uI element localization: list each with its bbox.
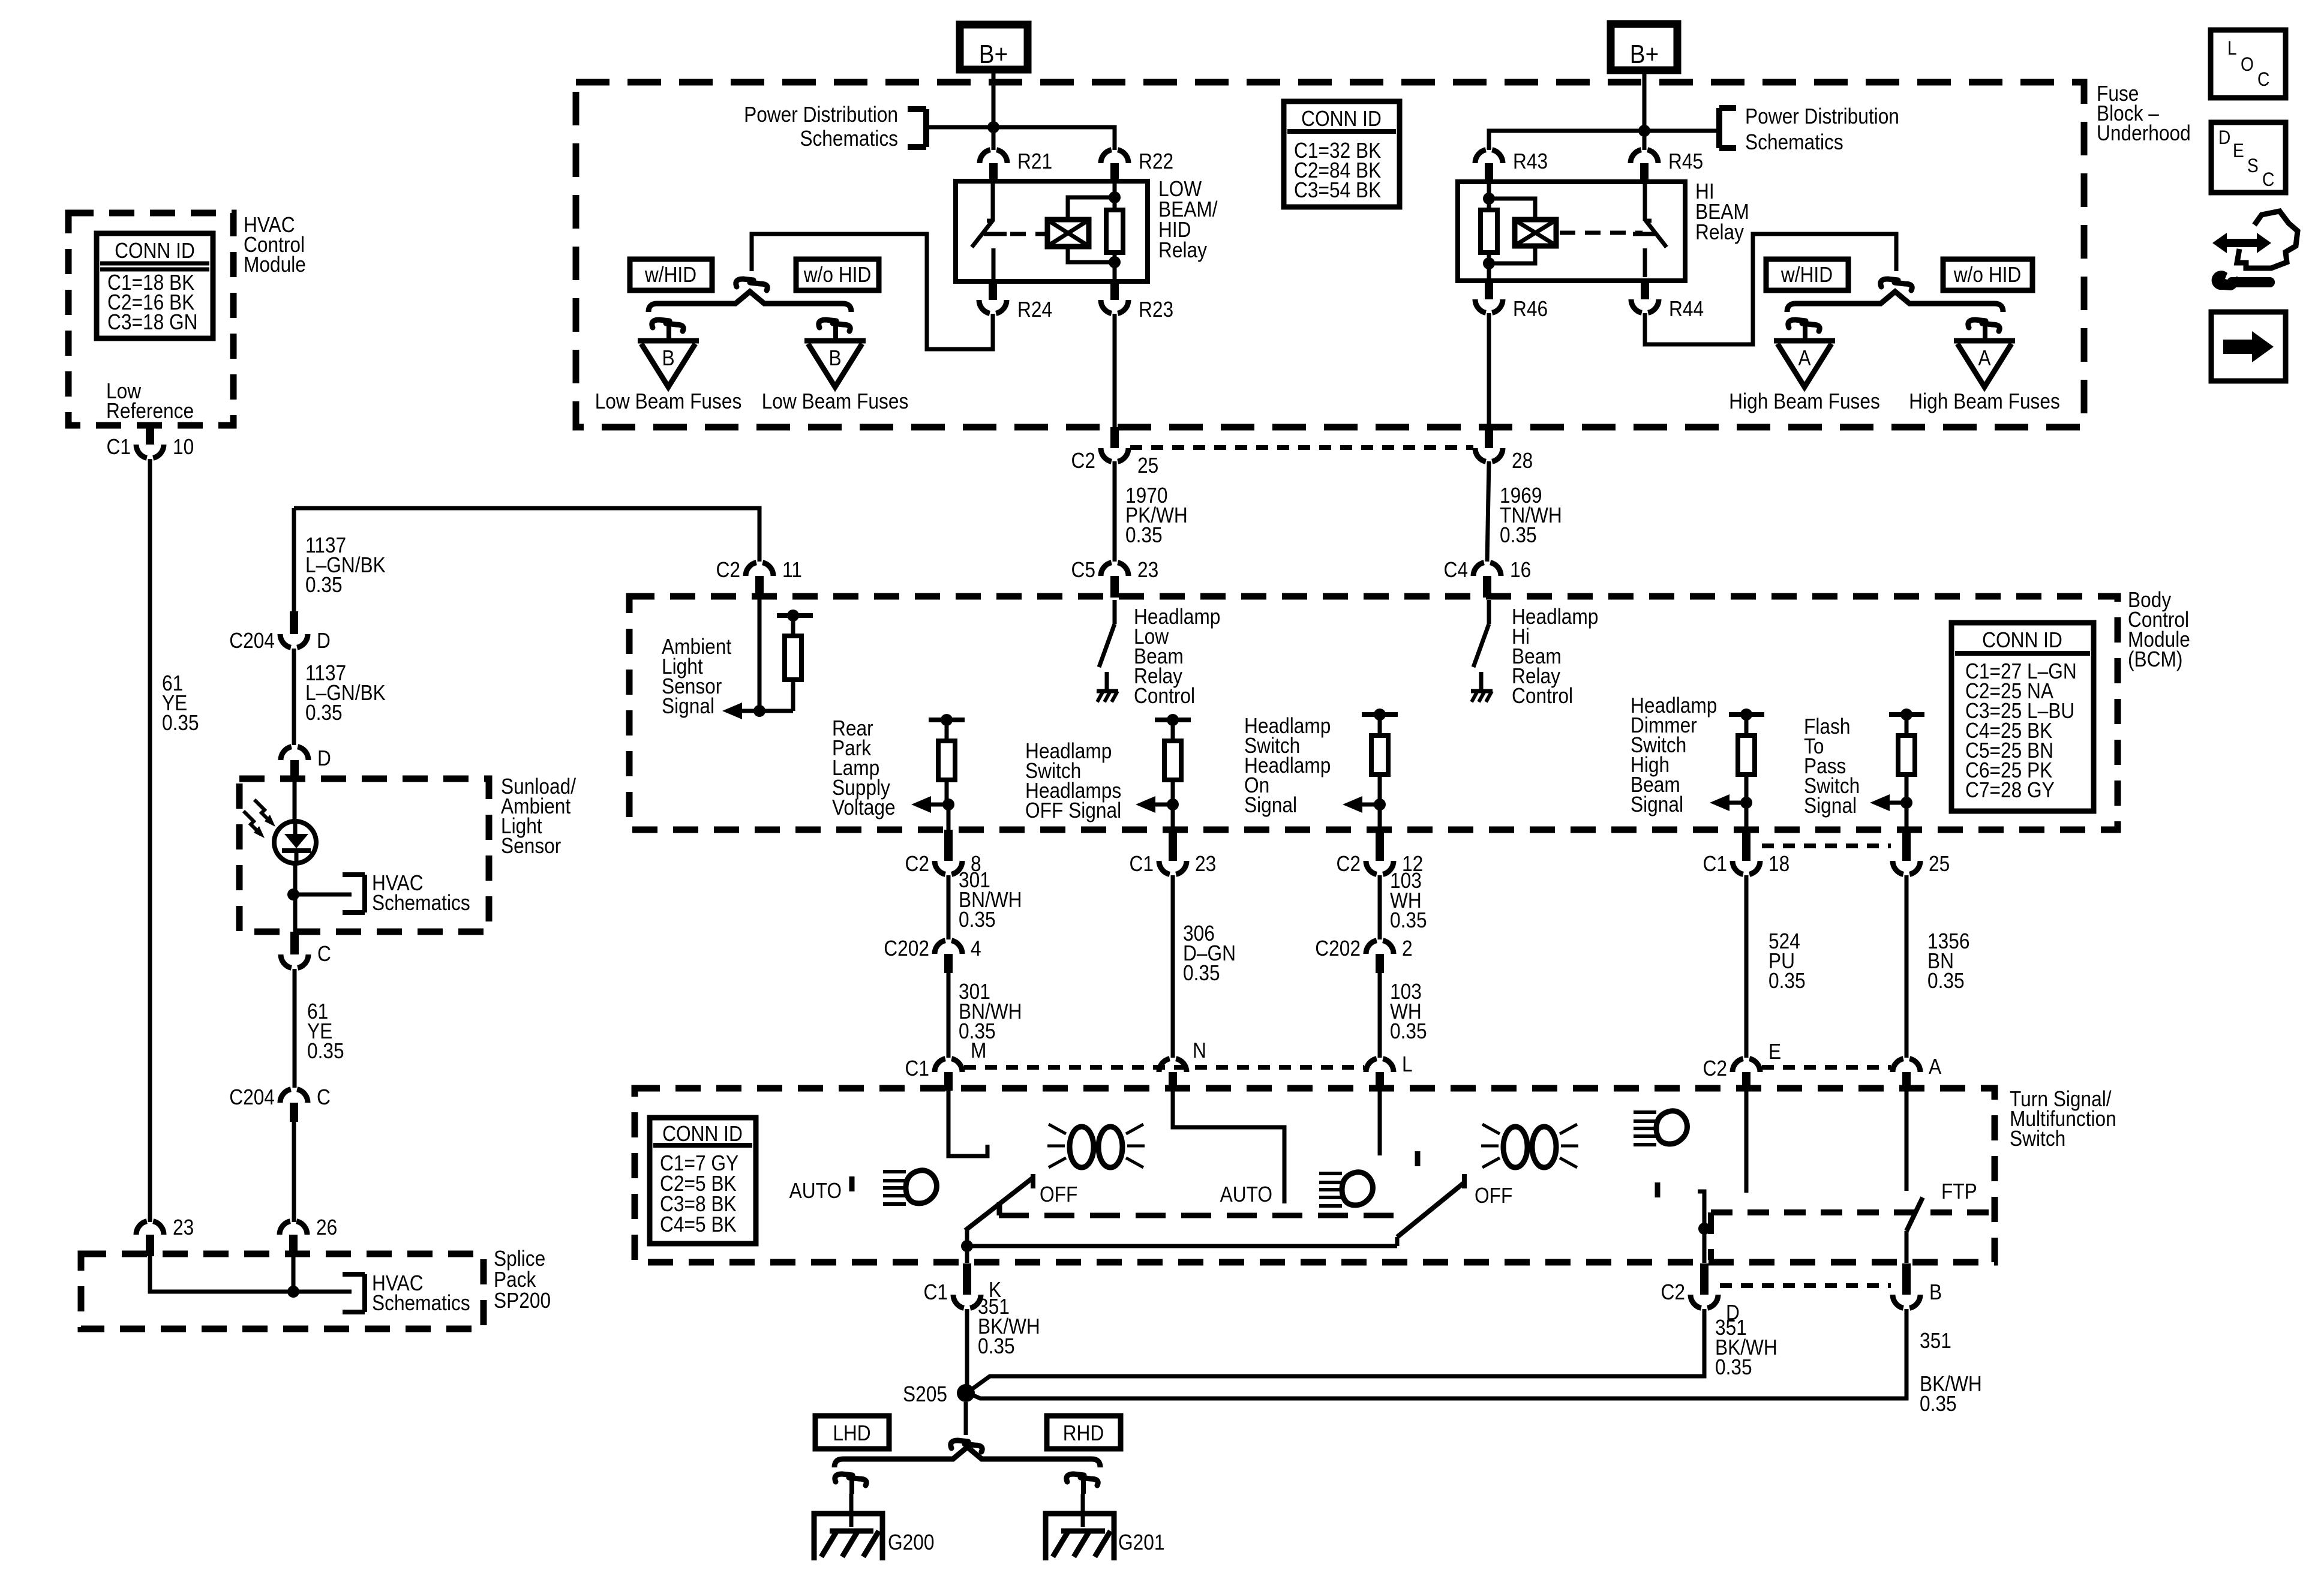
connector C202 4 [944, 954, 953, 973]
svg-text:C: C [317, 942, 331, 966]
tick dimmer contact [1655, 1182, 1661, 1197]
dotted link E A [1762, 1065, 1891, 1070]
wire 1969 TN/WH [1487, 461, 1489, 562]
wire 103 lower [1378, 973, 1382, 1058]
fuse symbol (low beam w/HID) [652, 320, 669, 328]
svg-text:Relay: Relay [1158, 238, 1207, 262]
svg-text:C1: C1 [924, 1280, 948, 1304]
svg-text:C2: C2 [1661, 1280, 1685, 1304]
svg-text:w/HID: w/HID [1780, 263, 1833, 287]
wire 301 lower [947, 973, 951, 1058]
svg-text:Schematics: Schematics [372, 1291, 470, 1315]
break symbol (G201 branch) [1067, 1474, 1084, 1482]
wire off signal to C1-23 [1171, 804, 1175, 830]
svg-text:0.35: 0.35 [1927, 969, 1965, 993]
svg-text:16: 16 [1510, 558, 1531, 582]
svg-text:Control: Control [1134, 684, 1195, 708]
svg-text:High Beam Fuses: High Beam Fuses [1909, 389, 2060, 413]
svg-text:w/HID: w/HID [644, 263, 696, 287]
node ambient junction [787, 610, 799, 622]
conn id table (hvac) [97, 233, 213, 338]
svg-text:R24: R24 [1017, 298, 1052, 322]
svg-text:0.35: 0.35 [305, 573, 343, 597]
svg-text:R46: R46 [1513, 297, 1548, 321]
svg-text:C: C [2262, 169, 2274, 190]
wire rear park to C2-8 [947, 804, 951, 830]
node switch1 junction [961, 1240, 973, 1252]
svg-text:C1: C1 [905, 1056, 929, 1080]
node relay bottom (low relay) [1109, 256, 1121, 268]
svg-text:2: 2 [1402, 936, 1413, 960]
bracket Power Distribution Schematics (right) [1716, 108, 1722, 148]
connector R45 [1640, 163, 1649, 182]
resistor (rear park lamp) [929, 718, 965, 722]
svg-text:High Beam Fuses: High Beam Fuses [1729, 389, 1880, 413]
svg-text:C202: C202 [884, 936, 929, 960]
svg-text:0.35: 0.35 [1390, 1019, 1427, 1043]
node splice junction [287, 1286, 299, 1298]
brace LHD RHD [834, 1447, 1100, 1467]
wire 103 upper [1378, 875, 1382, 939]
svg-text:4: 4 [971, 936, 981, 960]
fuse triangle B (low beam w/o HID) [804, 338, 866, 344]
svg-text:Power Distribution: Power Distribution [744, 103, 898, 127]
switch headlamp hi beam relay control [1487, 600, 1491, 624]
svg-text:M: M [971, 1038, 986, 1062]
wire to HVAC schematics bracket [293, 893, 352, 897]
lamps on icon (switch1) [1070, 1127, 1094, 1167]
svg-text:S: S [2247, 155, 2259, 176]
break symbol (below S205) [951, 1440, 968, 1448]
svg-text:R21: R21 [1017, 149, 1052, 173]
arrow flash to pass signal [1887, 801, 1906, 805]
connector 26 (splice pack) [289, 1235, 298, 1256]
break symbol (G200 branch) [835, 1474, 852, 1482]
tick AUTO contact (switch1) [849, 1176, 855, 1191]
relay switch (low beam relay) [991, 184, 995, 221]
svg-text:Switch: Switch [2010, 1127, 2065, 1151]
relay box HI BEAM [1458, 182, 1685, 281]
node relay top (low relay) [1109, 191, 1121, 203]
wire M pole hook [948, 1091, 987, 1156]
svg-text:AUTO: AUTO [1220, 1182, 1272, 1206]
connector C202 2 [1376, 954, 1384, 973]
svg-text:Power Distribution: Power Distribution [1745, 104, 1899, 128]
dotted link M N L [964, 1065, 1364, 1070]
svg-text:B: B [828, 346, 841, 370]
dotted link 18 to 25 [1762, 843, 1891, 848]
svg-text:S205: S205 [903, 1382, 947, 1406]
wire B+ left vertical [992, 70, 996, 150]
node dimmer junction [1740, 709, 1752, 721]
svg-text:0.35: 0.35 [1715, 1355, 1752, 1379]
wire to C204 D [292, 508, 296, 620]
svg-text:O: O [2241, 54, 2254, 75]
svg-text:CONN ID: CONN ID [1982, 628, 2062, 652]
svg-text:AUTO: AUTO [789, 1179, 842, 1203]
box w/HID (left) [630, 259, 712, 290]
svg-text:SP200: SP200 [494, 1289, 551, 1313]
arrow headlamps off signal [1152, 803, 1173, 807]
svg-text:Reference: Reference [106, 399, 194, 423]
svg-text:B: B [1929, 1280, 1942, 1304]
fuse triangle B (low beam w/HID) [638, 338, 699, 344]
svg-text:G200: G200 [888, 1530, 934, 1554]
svg-text:Signal: Signal [662, 694, 714, 718]
node sunload junction [287, 888, 299, 900]
svg-text:Module: Module [244, 253, 306, 277]
wire 1970 PK/WH [1113, 461, 1117, 562]
svg-text:R23: R23 [1139, 298, 1173, 322]
power feed B+ (left) [960, 25, 1028, 70]
headlamp icon (switch1) [883, 1170, 906, 1173]
svg-text:C204: C204 [229, 629, 275, 653]
connector C2 12 [1376, 830, 1384, 861]
wire K to S205 [965, 1309, 969, 1392]
wire R46 to 28 [1487, 313, 1491, 427]
svg-text:Voltage: Voltage [832, 795, 896, 819]
wire coil loop top (hi relay) [1489, 199, 1535, 220]
svg-text:LHD: LHD [833, 1421, 870, 1445]
brace low beam fuses [648, 292, 851, 312]
svg-text:351: 351 [1920, 1329, 1951, 1353]
wire S205 down [964, 1402, 968, 1435]
connector R43 [1485, 163, 1493, 182]
wire to G200 [849, 1494, 854, 1527]
svg-text:C5: C5 [1071, 558, 1095, 582]
wire 1356 [1905, 875, 1909, 1058]
svg-text:Relay: Relay [1695, 220, 1744, 244]
svg-text:Control: Control [1512, 684, 1573, 708]
svg-text:0.35: 0.35 [1500, 523, 1537, 547]
connector 23 (splice pack) [146, 1235, 154, 1256]
connector 28 [1485, 427, 1493, 448]
svg-text:0.35: 0.35 [959, 908, 996, 932]
wire R24 to fuse brace [752, 234, 993, 349]
svg-text:Schematics: Schematics [800, 127, 898, 151]
node bus junction right [1638, 125, 1650, 137]
connector R44 [1641, 281, 1649, 299]
svg-text:28: 28 [1512, 449, 1533, 473]
box w/HID (right) [1766, 259, 1848, 290]
svg-text:B: B [662, 346, 674, 370]
switch blade (switch1) [1031, 1174, 1035, 1188]
svg-text:0.35: 0.35 [978, 1334, 1015, 1358]
svg-text:Signal: Signal [1244, 793, 1297, 817]
box RHD [1047, 1416, 1121, 1449]
connector D (sunload) [290, 760, 299, 780]
arrow ambient light sensor signal [739, 709, 759, 713]
svg-text:23: 23 [1195, 852, 1216, 876]
connector C4 16 [1483, 576, 1491, 598]
bracket Power Distribution Schematics (left) [923, 109, 929, 147]
svg-text:Schematics: Schematics [372, 891, 470, 915]
svg-text:C4: C4 [1444, 558, 1468, 582]
connector C2 8 [944, 830, 953, 861]
ground G200 [814, 1514, 882, 1560]
switch blade FTP [1906, 1197, 1923, 1231]
wire D to S205 [968, 1309, 1704, 1392]
svg-text:FTP: FTP [1941, 1179, 1977, 1203]
svg-text:C3=54 BK: C3=54 BK [1294, 178, 1382, 202]
brace high beam fuses [1787, 292, 2003, 312]
svg-text:OFF: OFF [1475, 1184, 1512, 1208]
relay coil X (hi relay) [1515, 220, 1556, 246]
connector R23 [1110, 281, 1119, 300]
fuse triangle A (high beam w/HID) [1774, 338, 1835, 344]
connector C (sunload bottom) [290, 932, 299, 954]
svg-text:Underhood: Underhood [2097, 121, 2191, 145]
box w/o HID (right) [1943, 259, 2032, 290]
connector C204 D (upper) [290, 611, 298, 634]
svg-text:R22: R22 [1139, 149, 1173, 173]
svg-text:w/o HID: w/o HID [803, 263, 872, 287]
body control module box [629, 596, 2118, 830]
icon LOC box [2211, 30, 2286, 98]
node flash junction [1900, 709, 1912, 721]
tick L contact (switch2) [1415, 1151, 1421, 1166]
svg-text:A: A [1798, 346, 1810, 370]
arrow dimmer high beam signal [1727, 801, 1746, 805]
connector C204 C (lower) [290, 1103, 298, 1122]
resistor (dimmer high beam) [1729, 712, 1764, 717]
wire 306 [1171, 875, 1175, 1058]
svg-text:R43: R43 [1513, 149, 1548, 173]
dotted link D B [1720, 1283, 1891, 1288]
node off signal junction [1167, 714, 1179, 726]
svg-text:D: D [317, 629, 331, 653]
wire splice pack internal [150, 1256, 352, 1292]
wire coil to resistor bottom (low relay) [1068, 247, 1115, 262]
connector C2 E [1742, 1072, 1750, 1091]
svg-text:Sensor: Sensor [501, 834, 561, 858]
svg-text:0.35: 0.35 [1390, 908, 1427, 932]
connector C1 18 [1742, 830, 1750, 861]
svg-text:0.35: 0.35 [1768, 969, 1806, 993]
svg-text:C2: C2 [1071, 449, 1095, 473]
svg-text:OFF Signal: OFF Signal [1025, 798, 1121, 822]
wire 61 YE hvac [148, 459, 152, 1222]
connector C5 23 [1110, 576, 1119, 598]
svg-text:C4=5 BK: C4=5 BK [660, 1212, 737, 1236]
relay link dashed (low beam relay) [1010, 232, 1046, 236]
conn id table (fuse block) [1284, 101, 1400, 207]
sunload ambient light sensor box [239, 779, 489, 932]
connector A [1902, 1072, 1911, 1091]
svg-text:Signal: Signal [1804, 794, 1857, 818]
connector N [1169, 1072, 1177, 1091]
hvac control module box [68, 213, 233, 425]
svg-text:0.35: 0.35 [307, 1039, 344, 1063]
svg-text:11: 11 [782, 558, 802, 582]
svg-text:C2: C2 [716, 558, 740, 582]
splice pack SP200 box [81, 1254, 484, 1329]
connector C1 23 (bcm) [1169, 830, 1177, 861]
resistor (headlamps off signal) [1155, 718, 1191, 722]
switch headlamp low beam relay control [1113, 600, 1117, 624]
resistor (flash to pass) [1889, 712, 1924, 717]
connector L [1376, 1072, 1384, 1091]
svg-text:0.35: 0.35 [1920, 1392, 1957, 1416]
svg-text:23: 23 [173, 1215, 194, 1239]
relay resistor (hi relay) [1487, 184, 1491, 210]
svg-text:B+: B+ [1630, 39, 1659, 69]
connector 25 (bcm) [1902, 830, 1911, 861]
relay resistor (low relay) [1113, 184, 1117, 210]
break symbol (low beam fuse wire) [736, 279, 753, 287]
wire C2-11 into BCM [758, 596, 762, 711]
connector C1 10 [146, 425, 154, 445]
wire to G201 [1081, 1494, 1085, 1527]
wire photodiode to box bottom [293, 863, 298, 932]
headlamp icon (switch2) [1319, 1172, 1342, 1175]
svg-text:0.35: 0.35 [305, 701, 343, 725]
icon forward arrow box [2211, 312, 2286, 381]
splice S205 [957, 1384, 975, 1402]
svg-text:C2: C2 [1337, 852, 1361, 876]
svg-text:26: 26 [316, 1215, 337, 1239]
svg-text:C202: C202 [1315, 936, 1361, 960]
node on signal junction [1374, 709, 1386, 721]
wire 524 [1744, 875, 1749, 1058]
svg-text:CONN ID: CONN ID [115, 239, 195, 263]
connector R46 [1485, 281, 1493, 299]
connector R22 [1110, 163, 1119, 181]
connector R21 [989, 163, 998, 181]
fuse triangle A (high beam w/o HID) [1954, 338, 2015, 344]
photodiode (sunload sensor) [274, 821, 316, 863]
relay box LOW BEAM/HID [956, 181, 1148, 281]
icon DESC box [2211, 122, 2286, 193]
svg-text:E: E [2233, 140, 2244, 161]
ground (hi beam relay control) [1471, 689, 1493, 694]
svg-text:C1: C1 [107, 435, 131, 459]
power feed B+ (right) [1611, 24, 1677, 70]
wire E pole [1744, 1091, 1749, 1193]
lamps on icon (switch2) [1503, 1127, 1527, 1167]
wire coil loop bottom (hi relay) [1489, 246, 1535, 263]
svg-text:10: 10 [173, 435, 194, 459]
svg-text:Low Beam Fuses: Low Beam Fuses [762, 389, 909, 413]
node relay top (hi relay) [1483, 193, 1495, 205]
turn signal multifunction switch box [635, 1088, 1995, 1262]
svg-text:C2: C2 [905, 852, 929, 876]
wire 61 YE (sensor) [293, 969, 297, 1088]
connector R24 [989, 281, 997, 300]
svg-text:25: 25 [1137, 454, 1158, 478]
svg-text:18: 18 [1768, 852, 1789, 876]
wire A pole [1905, 1091, 1909, 1191]
dotted link C2-25 to 28 [1130, 445, 1473, 450]
wire switch1 to K and common [965, 1230, 969, 1263]
svg-text:0.35: 0.35 [1125, 523, 1163, 547]
svg-text:C2: C2 [1703, 1056, 1727, 1080]
svg-text:C1: C1 [1703, 852, 1727, 876]
svg-text:0.35: 0.35 [1183, 961, 1220, 985]
switch blade (switch2) [1462, 1174, 1467, 1188]
svg-text:23: 23 [1137, 558, 1158, 582]
icon locator arrow-wrench [2212, 233, 2271, 253]
connector B [1902, 1263, 1911, 1295]
break symbol (high beam fuse wire) [1881, 279, 1898, 287]
ground (low beam relay control) [1097, 689, 1118, 694]
svg-text:C7=28 GY: C7=28 GY [1965, 778, 2055, 802]
node D junction [1698, 1223, 1710, 1235]
wire 301 upper [947, 875, 951, 939]
wire into photodiode [293, 780, 297, 821]
svg-text:RHD: RHD [1063, 1421, 1104, 1445]
connector C2 D [1700, 1263, 1709, 1295]
ftp sub box dashed [1711, 1209, 1995, 1215]
svg-text:25: 25 [1929, 852, 1950, 876]
connector C2 25 [1110, 427, 1119, 448]
box LHD [815, 1416, 889, 1449]
svg-text:C204: C204 [229, 1085, 275, 1109]
svg-text:L: L [2227, 38, 2237, 59]
svg-text:L: L [1402, 1052, 1413, 1076]
svg-text:CONN ID: CONN ID [662, 1122, 743, 1146]
svg-text:G201: G201 [1118, 1530, 1164, 1554]
conn id table (bcm) [1951, 623, 2094, 811]
wire L pole [1378, 1091, 1382, 1155]
resistor (ambient light) [777, 613, 813, 618]
wire B to S205 [969, 1309, 1906, 1398]
wire C204 C to 26 [292, 1122, 296, 1222]
svg-text:E: E [1768, 1040, 1781, 1064]
svg-text:Signal: Signal [1631, 792, 1683, 816]
wire dimmer to C1-18 [1744, 803, 1749, 830]
svg-text:B+: B+ [979, 39, 1008, 69]
node bus junction left [987, 121, 999, 133]
wire D common [1698, 1191, 1704, 1263]
connector C2 11 [755, 576, 764, 598]
svg-text:C3=18 GN: C3=18 GN [107, 310, 197, 334]
fuse symbol (low beam w/o HID) [819, 320, 836, 328]
fuse symbol (high beam w/HID) [1788, 320, 1806, 328]
svg-text:0.35: 0.35 [162, 711, 199, 735]
svg-text:C: C [317, 1085, 331, 1109]
wire N to AUTO contact [1173, 1091, 1284, 1203]
bracket HVAC schematics (sensor) [362, 875, 367, 912]
ground G201 [1046, 1514, 1114, 1560]
svg-text:D: D [2218, 127, 2230, 148]
wire on signal to C2-12 [1378, 804, 1382, 830]
svg-text:OFF: OFF [1040, 1182, 1077, 1206]
relay switch (hi beam relay) [1643, 184, 1647, 221]
fuse block - underhood box [576, 82, 2084, 427]
svg-text:D: D [317, 746, 331, 770]
node relay bottom (hi relay) [1483, 257, 1495, 269]
svg-text:Low Beam Fuses: Low Beam Fuses [595, 389, 742, 413]
svg-text:A: A [1929, 1055, 1941, 1079]
wire R23 to C2-25 [1113, 314, 1117, 427]
svg-text:C: C [2257, 69, 2269, 90]
connector C1 M [944, 1072, 953, 1091]
svg-text:Schematics: Schematics [1745, 130, 1843, 154]
svg-text:(BCM): (BCM) [2128, 647, 2182, 671]
relay coil X (low beam relay) [1047, 220, 1089, 247]
arrow rear park lamp supply voltage [928, 803, 948, 807]
wire B+ right vertical [1643, 70, 1647, 150]
connector C1 K [963, 1263, 971, 1295]
wire C204 D to D [292, 649, 296, 745]
wire power bus right [1489, 131, 1718, 150]
box w/o HID (left) [796, 259, 879, 290]
relay link dashed (hi relay) [1560, 231, 1643, 235]
svg-text:C1: C1 [1130, 852, 1154, 876]
node rear park junction [941, 714, 953, 726]
bracket HVAC schematics (splice) [362, 1274, 367, 1312]
